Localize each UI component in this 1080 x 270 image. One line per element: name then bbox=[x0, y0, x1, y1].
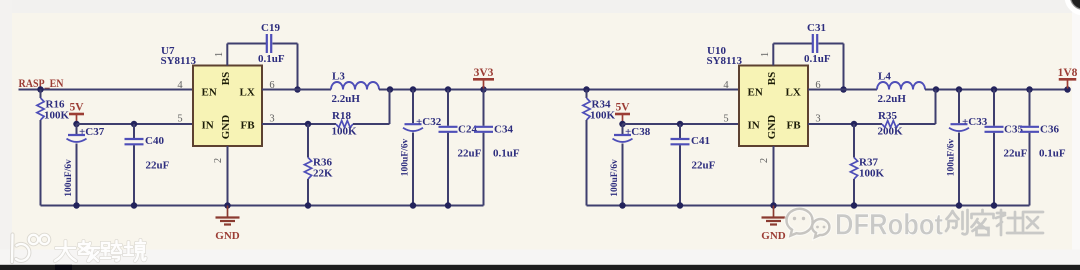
wire C37 bottom bbox=[76, 144, 78, 206]
svg-text:SY8113: SY8113 bbox=[707, 55, 743, 67]
svg-text:3: 3 bbox=[815, 114, 820, 125]
bottom black bar bbox=[0, 265, 1080, 270]
svg-text:GND: GND bbox=[220, 115, 232, 140]
wire C35 top wire bbox=[993, 90, 995, 126]
wire ground rail bbox=[41, 205, 484, 207]
svg-text:4: 4 bbox=[177, 80, 183, 91]
junction C41 top bbox=[677, 121, 684, 128]
capacitor C36 plates bbox=[1020, 127, 1039, 132]
wire C40 bottom bbox=[133, 145, 135, 205]
wire R34 top stub bbox=[586, 90, 588, 99]
junction inductor output node bbox=[933, 86, 940, 93]
svg-text:0.1uF: 0.1uF bbox=[258, 53, 285, 65]
svg-text:22uF: 22uF bbox=[1004, 148, 1028, 160]
resistor R37 body bbox=[850, 158, 857, 180]
capacitor C34 plates bbox=[474, 127, 493, 132]
power symbol 5V (U75v) bbox=[69, 114, 84, 124]
svg-text:22K: 22K bbox=[313, 168, 333, 180]
bottom light band bbox=[0, 250, 1080, 265]
svg-text:EN: EN bbox=[202, 87, 217, 99]
junction C37 rail bbox=[73, 202, 80, 209]
svg-text:R18: R18 bbox=[332, 110, 351, 122]
capacitor C24 plates bbox=[439, 127, 458, 132]
svg-text:L4: L4 bbox=[878, 71, 891, 83]
svg-text:4: 4 bbox=[723, 80, 729, 91]
svg-text:IN: IN bbox=[748, 120, 760, 132]
resistor R35 body bbox=[882, 121, 899, 128]
capacitor C31 plates bbox=[813, 34, 817, 53]
svg-text:GND: GND bbox=[761, 230, 786, 242]
svg-text:+C38: +C38 bbox=[625, 126, 651, 138]
svg-text:3: 3 bbox=[269, 114, 274, 125]
svg-text:100uF/6v: 100uF/6v bbox=[610, 159, 620, 197]
junction C33 top bbox=[956, 86, 963, 93]
svg-text:2: 2 bbox=[213, 158, 224, 163]
svg-text:C40: C40 bbox=[145, 135, 164, 147]
junction U10 GND rail bbox=[770, 202, 777, 209]
svg-text:FB: FB bbox=[241, 120, 256, 132]
svg-text:22uF: 22uF bbox=[146, 160, 170, 172]
resistor R16 body bbox=[37, 98, 44, 120]
svg-text:5: 5 bbox=[723, 114, 728, 125]
wire FB riser bbox=[389, 90, 391, 125]
wire C32 bottom wire bbox=[412, 133, 414, 206]
wire C35 bottom wire bbox=[993, 133, 995, 206]
wire LX wire to inductor bbox=[808, 89, 877, 91]
wire BS top wire right bbox=[819, 43, 844, 45]
wire C36 top wire bbox=[1029, 90, 1031, 126]
right margin strip bbox=[1072, 0, 1080, 270]
wire R16 bottom to rail bbox=[40, 120, 42, 206]
svg-text:BS: BS bbox=[220, 72, 232, 85]
junction 1V8 node bbox=[1064, 86, 1071, 93]
wire C40 top bbox=[133, 124, 135, 138]
power symbol 5V (U105v) bbox=[615, 114, 630, 124]
svg-text:C36: C36 bbox=[1040, 124, 1059, 136]
svg-text:LX: LX bbox=[240, 87, 255, 99]
junction EN input / divider bbox=[37, 86, 44, 93]
svg-text:C34: C34 bbox=[494, 124, 513, 136]
top-right corner dark circular button bbox=[1067, 0, 1080, 13]
svg-text:FB: FB bbox=[787, 120, 802, 132]
junction C41 rail bbox=[677, 202, 684, 209]
svg-text:+C32: +C32 bbox=[416, 116, 442, 128]
svg-text:SY8113: SY8113 bbox=[161, 55, 197, 67]
resistor R34 body bbox=[583, 98, 590, 120]
svg-text:L3: L3 bbox=[332, 71, 345, 83]
wire C24 top wire bbox=[447, 90, 449, 126]
junction R37 rail bbox=[851, 202, 858, 209]
svg-text:5V: 5V bbox=[69, 102, 84, 114]
wire C33 top wire bbox=[958, 90, 960, 124]
svg-text:1V8: 1V8 bbox=[1058, 67, 1078, 79]
svg-text:C31: C31 bbox=[807, 22, 826, 34]
wire R37 top bbox=[853, 124, 855, 158]
watermark: left text 大数跨境 bbox=[55, 240, 146, 261]
svg-text:+C33: +C33 bbox=[962, 116, 988, 128]
svg-text:0.1uF: 0.1uF bbox=[1039, 148, 1066, 160]
wire BS top wire right bbox=[273, 43, 298, 45]
left buck converter stage (U7) bbox=[19, 22, 740, 242]
polarized capacitor C33 plates bbox=[949, 124, 969, 131]
resistor R36 body bbox=[304, 158, 311, 180]
svg-text:LX: LX bbox=[786, 87, 801, 99]
svg-text:5: 5 bbox=[177, 114, 182, 125]
svg-text:DFRobot: DFRobot bbox=[835, 209, 943, 242]
wire C37 top bbox=[76, 124, 78, 134]
svg-text:1: 1 bbox=[214, 52, 225, 57]
wire BS top wire left bbox=[773, 43, 812, 45]
polarized capacitor C37 plates bbox=[67, 135, 87, 142]
svg-text:100K: 100K bbox=[859, 168, 885, 180]
svg-text:100K: 100K bbox=[44, 110, 70, 122]
wire BS loop drop bbox=[297, 44, 299, 90]
wire R34 bottom to rail bbox=[586, 120, 588, 206]
wire inductor out wire bbox=[379, 89, 739, 91]
wire BS top wire left bbox=[227, 43, 266, 45]
svg-text:2.2uH: 2.2uH bbox=[878, 93, 907, 105]
svg-text:0.1uF: 0.1uF bbox=[804, 53, 831, 65]
svg-text:IN: IN bbox=[202, 120, 214, 132]
inductor L3 body bbox=[331, 82, 379, 89]
svg-text:200K: 200K bbox=[878, 126, 904, 138]
junction C36 top bbox=[1026, 86, 1033, 93]
junction EN input / divider bbox=[583, 86, 590, 93]
capacitor C35 plates bbox=[985, 127, 1004, 132]
wire U7 GND stub bbox=[227, 146, 229, 206]
svg-text:100uF/6v: 100uF/6v bbox=[401, 139, 411, 177]
capacitor C19 plates bbox=[267, 34, 271, 53]
wire C34 bottom wire bbox=[483, 133, 485, 206]
wire BS pin riser bbox=[226, 44, 228, 66]
junction 5V / IN wire / C37 bbox=[73, 121, 80, 128]
svg-text:100uF/6v: 100uF/6v bbox=[947, 139, 957, 177]
junction inductor output node bbox=[387, 86, 394, 93]
wire FB wire right bbox=[353, 123, 390, 125]
svg-text:BS: BS bbox=[766, 72, 778, 85]
capacitor C41 plates bbox=[671, 139, 690, 144]
polarized capacitor C32 plates bbox=[403, 124, 423, 131]
junction R36 rail bbox=[305, 202, 312, 209]
junction C40 rail bbox=[131, 202, 138, 209]
wire FB wire bbox=[808, 123, 882, 125]
polarized capacitor C38 plates bbox=[613, 135, 633, 142]
wire C41 top bbox=[679, 124, 681, 138]
wire IN wire bbox=[77, 123, 194, 125]
junction C24 rail bbox=[445, 202, 452, 209]
svg-text:C35: C35 bbox=[1004, 124, 1023, 136]
wire C41 bottom bbox=[679, 145, 681, 205]
wire BS pin riser bbox=[772, 44, 774, 66]
wire R36 bottom bbox=[307, 179, 309, 206]
svg-text:+C37: +C37 bbox=[79, 126, 105, 138]
svg-text:C19: C19 bbox=[261, 22, 280, 34]
wire R37 bottom bbox=[853, 179, 855, 206]
wire BS loop drop bbox=[843, 44, 845, 90]
resistor R18 body bbox=[336, 121, 353, 128]
wire C36 bottom wire bbox=[1029, 133, 1031, 206]
svg-text:100K: 100K bbox=[332, 126, 358, 138]
junction C35 top bbox=[991, 86, 998, 93]
junction FB node bbox=[305, 121, 312, 128]
svg-text:2: 2 bbox=[759, 158, 770, 163]
watermark: right text 创客社区 bbox=[946, 210, 1043, 235]
wire EN input from previous stage bbox=[484, 89, 740, 91]
wire IN wire bbox=[623, 123, 740, 125]
ground symbol gnd U7 bbox=[216, 206, 240, 225]
junction BS loop / LX bbox=[840, 86, 847, 93]
svg-text:100uF/6v: 100uF/6v bbox=[64, 159, 74, 197]
junction 5V / IN wire / C37 bbox=[619, 121, 626, 128]
wire C33 bottom wire bbox=[958, 133, 960, 206]
svg-text:100K: 100K bbox=[590, 110, 616, 122]
svg-text:3V3: 3V3 bbox=[474, 67, 494, 79]
right buck converter stage (U10) bbox=[484, 22, 1068, 242]
watermark: right wechat-style logo bubbles bbox=[787, 209, 830, 237]
junction BS loop / LX bbox=[294, 86, 301, 93]
wire FB riser bbox=[935, 90, 937, 125]
wire inductor out wire bbox=[925, 89, 1068, 91]
wire C24 bottom wire bbox=[447, 133, 449, 206]
junction C38 rail bbox=[619, 202, 626, 209]
wire C38 bottom bbox=[622, 144, 624, 206]
wire C32 top wire bbox=[412, 90, 414, 124]
svg-text:22uF: 22uF bbox=[458, 148, 482, 160]
wire LX wire to inductor bbox=[262, 89, 331, 91]
wire FB wire bbox=[262, 123, 336, 125]
svg-text:GND: GND bbox=[766, 115, 778, 140]
svg-text:GND: GND bbox=[215, 230, 240, 242]
watermark: left logo K100 bbox=[12, 235, 49, 263]
wire FB wire right bbox=[899, 123, 936, 125]
junction U7 GND rail bbox=[224, 202, 231, 209]
junction C35 rail bbox=[991, 202, 998, 209]
svg-text:0.1uF: 0.1uF bbox=[493, 148, 520, 160]
wire EN net input bbox=[19, 89, 194, 91]
wire C34 top wire bbox=[483, 90, 485, 126]
wire ground rail bbox=[587, 205, 1030, 207]
left margin strip bbox=[0, 0, 12, 270]
ground symbol gnd U10 bbox=[762, 206, 786, 225]
power symbol 1V8 (out) bbox=[1059, 79, 1077, 88]
wire R16 top stub bbox=[40, 90, 42, 99]
junction C40 top bbox=[131, 121, 138, 128]
bottom bar darker segment bbox=[55, 265, 72, 270]
wire C38 top bbox=[622, 124, 624, 134]
svg-text:1: 1 bbox=[760, 52, 771, 57]
op-amp regulator U7 SY8113 body bbox=[193, 66, 262, 147]
svg-text:C24: C24 bbox=[458, 124, 477, 136]
top margin strip bbox=[0, 0, 1080, 13]
wire U10 GND stub bbox=[773, 146, 775, 206]
svg-text:C41: C41 bbox=[691, 135, 710, 147]
junction C32 top bbox=[410, 86, 417, 93]
svg-text:EN: EN bbox=[748, 87, 763, 99]
junction C34 top bbox=[480, 86, 487, 93]
power symbol 3V3 (mid) bbox=[473, 79, 494, 88]
junction C32 rail bbox=[410, 202, 417, 209]
junction C24 top bbox=[445, 86, 452, 93]
capacitor C40 plates bbox=[125, 139, 144, 144]
inductor L4 body bbox=[877, 82, 925, 89]
op-amp regulator U10 SY8113 body bbox=[739, 66, 808, 147]
junction FB node bbox=[851, 121, 858, 128]
junction C33 rail bbox=[956, 202, 963, 209]
wire R36 top bbox=[307, 124, 309, 158]
svg-text:22uF: 22uF bbox=[692, 160, 716, 172]
svg-text:2.2uH: 2.2uH bbox=[332, 93, 361, 105]
svg-text:5V: 5V bbox=[615, 102, 630, 114]
svg-text:R35: R35 bbox=[878, 110, 897, 122]
